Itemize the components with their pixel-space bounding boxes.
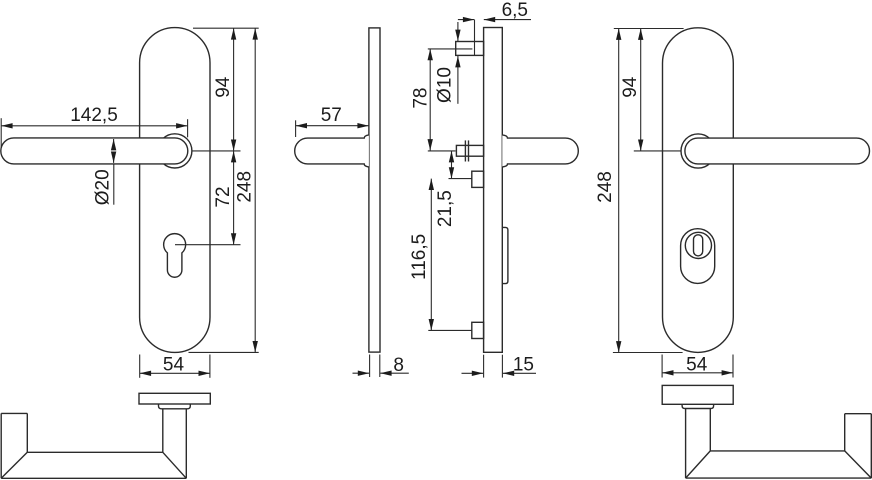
svg-text:Ø10: Ø10 <box>435 67 456 103</box>
dimension 116,5 line <box>430 179 432 331</box>
svg-text:78: 78 <box>410 88 431 109</box>
lever rose circle left view <box>158 134 192 168</box>
dimension 54 extension lines left view <box>139 355 141 378</box>
dimension 248 label right view <box>595 171 616 203</box>
svg-text:21,5: 21,5 <box>435 190 456 227</box>
upper lug extension line <box>449 178 472 180</box>
lower fixing lug <box>472 322 484 338</box>
lower lug extension line <box>428 329 472 331</box>
handle top view left: bent end <box>1 412 27 414</box>
svg-text:54: 54 <box>686 354 708 375</box>
dimension diameter 20 leader line <box>113 164 115 205</box>
lever handle bar left view <box>1 138 188 164</box>
dimension 142,5 line with arrows <box>1 125 187 127</box>
dimension 248 label left view <box>234 171 255 203</box>
top extension line left view <box>193 27 259 29</box>
svg-text:248: 248 <box>595 171 616 203</box>
svg-text:94: 94 <box>620 76 641 98</box>
handle top view left: neck collar <box>159 404 191 409</box>
lever handle bar right view <box>685 138 870 164</box>
handle top view right: backplate bar <box>662 385 733 404</box>
handle top view right: neck sides <box>685 409 687 479</box>
dimension 72 label left view <box>213 186 234 207</box>
svg-text:94: 94 <box>213 76 234 98</box>
dimension 54 line right view <box>662 372 733 374</box>
dimension 57 line <box>296 125 369 127</box>
dimension 54 line left view <box>140 372 210 374</box>
side view backplate (second view) outline <box>369 28 380 352</box>
dimension diameter 20 arrows <box>113 139 115 145</box>
svg-text:248: 248 <box>234 171 255 203</box>
security rosette cylinder circle <box>685 232 711 258</box>
side view lever handle <box>295 135 369 167</box>
dimension 15 extension lines <box>483 355 485 378</box>
svg-text:142,5: 142,5 <box>70 105 118 126</box>
dimension 21,5 line <box>451 151 453 179</box>
dimension 72 line left view <box>233 151 235 245</box>
dimension 142,5 extension line left <box>0 118 2 148</box>
spindle axis extension line <box>428 150 456 152</box>
spindle collar lines <box>464 140 466 161</box>
dimension 248 line left view <box>254 28 256 352</box>
dimension 94 line right view <box>640 29 642 151</box>
dimension 94 line left view <box>233 28 235 151</box>
cylinder axis extension line left view <box>175 244 241 246</box>
dimension 57 extension line <box>295 120 297 137</box>
top extension line right view <box>614 28 684 30</box>
security rosette screw slot <box>694 235 703 256</box>
handle top view right: neck collar <box>682 404 714 408</box>
handle top view right: neck-grip diagonal <box>686 451 711 478</box>
handle top view left: grip bottom edge <box>1 477 186 479</box>
rose circle right view <box>681 134 715 168</box>
bottom extension line right view <box>613 352 683 354</box>
dimension diameter 10 label <box>435 67 456 103</box>
svg-text:6,5: 6,5 <box>502 0 528 21</box>
dimension 116,5 label <box>409 234 430 280</box>
section view backplate (third view) outline <box>484 28 503 353</box>
dimension 8 arrow lines <box>353 372 370 374</box>
screw axis extension line <box>428 48 473 50</box>
dimension 15 arrow lines <box>462 372 484 374</box>
handle top view left: backplate bar <box>139 393 210 404</box>
svg-text:116,5: 116,5 <box>409 234 430 280</box>
dimension diameter 20 label <box>92 169 113 205</box>
upper fixing lug <box>472 171 484 187</box>
svg-text:15: 15 <box>513 355 534 376</box>
handle axis extension line right view <box>634 150 681 152</box>
dimension 8 extension lines <box>369 355 371 378</box>
dimension 6,5 right arrow line <box>484 19 531 21</box>
dimension 54 extension lines right view <box>661 355 663 378</box>
handle top view left: grip top edge <box>27 451 163 453</box>
top fixing screw shaft <box>456 42 484 56</box>
svg-text:57: 57 <box>321 105 342 126</box>
svg-text:54: 54 <box>163 355 185 376</box>
svg-text:8: 8 <box>393 355 404 376</box>
handle axis extension line left view <box>192 150 241 152</box>
left backplate front view outline <box>140 28 210 353</box>
spindle shaft <box>456 145 483 156</box>
dimension diameter 10 arrows <box>457 22 459 41</box>
handle top view left: neck-grip diagonal <box>163 452 187 478</box>
screw head face line <box>474 20 476 56</box>
dimension 78 label <box>410 88 431 109</box>
security rosette bump on back <box>502 227 508 283</box>
handle top view right: grip top edge <box>710 450 844 452</box>
dimension 78 line <box>429 49 431 151</box>
handle top view right: bent end <box>845 413 872 415</box>
svg-text:72: 72 <box>213 186 234 207</box>
dimension 6,5 left arrow line <box>458 19 474 21</box>
handle top view right: grip bottom edge <box>686 477 872 479</box>
bottom extension line left view <box>189 351 259 353</box>
dimension 21,5 label <box>435 190 456 227</box>
right backplate front view outline <box>663 28 734 353</box>
dimension 142,5 extension line right <box>187 119 189 137</box>
dimension 94 label left view <box>213 76 234 98</box>
section view lever handle pointing right <box>502 135 578 167</box>
dimension 94 label right view <box>620 76 641 98</box>
profile cylinder hole left view <box>164 234 186 278</box>
dimension 248 line right view <box>618 29 620 353</box>
handle top view left: neck sides <box>162 409 164 453</box>
security rosette outer oval <box>681 229 715 284</box>
svg-text:Ø20: Ø20 <box>92 169 113 205</box>
